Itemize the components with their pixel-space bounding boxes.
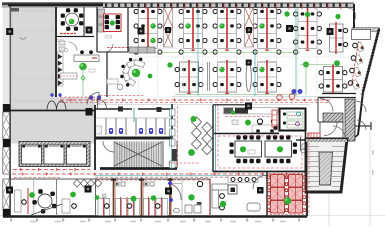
conference table 2 [265,141,292,157]
desk cluster A4 [258,7,277,49]
cell2 gray box [103,194,107,198]
column G6 [85,186,92,193]
training outline [269,174,306,215]
conf red dash box [218,136,302,168]
corridor bounds [172,96,330,98]
mid plant [220,201,226,207]
mid side table [247,203,260,211]
red dashed elevators [13,169,90,171]
cell3 door arc [170,184,181,201]
partition x113.5 [113,178,115,216]
green service line [82,66,84,96]
coffee table [117,84,123,90]
plant round table [69,19,75,25]
cafe desk2 [60,73,77,79]
red rings [277,95,283,101]
office cell 2 desks [144,199,149,216]
cafe bench row [58,52,64,86]
left facade frames [3,104,10,112]
plant red table [110,20,115,25]
plant corridor top [191,116,197,122]
bottom band top wall [8,178,210,180]
wall terrace right [55,7,57,97]
plant top right [335,14,340,19]
ramp diagonal [31,204,62,215]
bottom round table chairs [52,204,56,208]
toilet left items [96,126,102,134]
L wall right [355,125,371,127]
rowC desk band [252,125,278,133]
column G8 [286,25,293,32]
red dashed v corridor [177,106,179,168]
terrace inner outline [12,11,52,101]
plant corridor bottom [188,149,195,156]
terrace lines [9,30,56,32]
lobby blue dots [50,93,53,96]
meeting room red table [104,14,122,32]
bottom desk 1 [15,190,22,212]
teal v corridor [170,104,172,170]
wall y52 reception [97,51,128,53]
room above stair door arc [333,126,345,138]
teal line conference [215,105,217,171]
wall round room bottom [56,36,94,38]
cafe label [89,69,95,72]
cell4 tables [185,205,192,213]
teal toilet line [133,108,135,122]
hatch band right [345,99,355,141]
stair walls [95,137,172,140]
teal line v1 [197,7,199,96]
elevator cars [22,145,42,164]
pantry chairs [297,112,301,116]
toilet WC fixtures [109,128,113,134]
stair2 core [319,152,333,185]
corner angled desks [352,30,371,40]
blue dots reception [89,95,93,99]
pantry walls [280,109,306,131]
plant reception [132,69,140,77]
survey ticks [10,219,12,222]
diamond row bottom [73,180,80,188]
toilet stall partitions [105,118,107,135]
desk cluster B4 [324,67,343,93]
rowC chairs [257,119,262,124]
hatch block horizontal [323,113,343,122]
partition x170 [169,178,171,216]
red cluster ticks [146,50,150,52]
column G9 [138,28,145,35]
plant bl1 [29,192,35,198]
wall x210 bottom [210,179,212,216]
reception sofas [129,47,155,53]
wall rowC top [213,104,250,106]
outer wall bottom [3,215,307,218]
teal line corridor [95,175,310,177]
plant aisle A4-A5 [284,11,289,16]
small room right walls [296,139,343,141]
outer wall right step [353,4,355,29]
wall x33 bottom [33,179,35,216]
column G7 [165,188,172,195]
stair2 wall hatch top [306,139,347,142]
blue dots [292,89,297,94]
corridor cabinet boxes [170,109,176,116]
red dash rowC [225,116,277,118]
stair diagonal [114,142,162,166]
mid square table [228,185,237,194]
right rooms walls [318,97,356,99]
terrace gray zone [11,8,56,111]
stair door arc [103,141,114,152]
wc small rooms [302,144,306,148]
teal line v2 [295,7,297,96]
conference walls [214,133,279,135]
bottom desk 2 [62,199,70,213]
conf label [248,150,255,154]
desk cluster B3 [258,62,277,92]
green line h1 [130,52,300,54]
wall y93 right [322,93,356,95]
wall x56 bottom [56,179,58,216]
X-braced column T1 [164,7,173,47]
green line b4 [300,64,334,66]
desk cluster A6 half [330,24,344,52]
elevator lobby gray [11,112,95,144]
cell3 blues [168,181,173,187]
cafe door arc [87,93,99,105]
plant aisle mid [167,62,172,67]
toilet mid line [95,117,172,119]
partition x141.5 [141,178,143,216]
shelf red white 2 [308,133,320,138]
wall y110 lobby [10,110,95,112]
outer wall top left [8,4,103,6]
elevator block [19,142,90,167]
plant on A5 line [305,12,310,17]
grid line x329 [328,192,330,226]
top wall red ticks [145,3,147,10]
red dashed corridor upper 2 [60,102,330,104]
cell top boxes [115,182,119,186]
training plant [284,197,291,204]
corner desk red line [352,41,359,86]
red dashes under reception [100,95,145,97]
door arc meeting room [105,44,113,52]
stair2 outline [306,139,347,192]
mid column [257,187,264,194]
wall x182 bottom [181,179,183,216]
diamond panels [192,117,202,127]
red dashed seg3 [14,177,62,179]
bottom round table [38,194,52,208]
dim text right [372,150,373,155]
locker shelves [98,9,105,16]
wall x95 bottom [95,179,97,216]
wall x128 meeting [127,7,129,52]
desk cluster A3 [218,7,237,49]
lobby double door [47,101,57,110]
plant bl2 [70,192,76,198]
pantry tables [287,112,303,119]
outer wall left bottom [9,105,11,217]
mid room L desk [212,184,228,190]
plant credenza [231,110,235,114]
panel lines [207,62,209,91]
label 600 b [105,36,112,39]
core left wall [94,105,96,170]
red dashed lower 2 [95,176,300,178]
reception red marks [107,47,128,49]
round table chairs [79,21,83,25]
desk cluster A1 [139,7,158,49]
lobby door column [86,108,93,116]
column G2 [86,27,93,34]
grid line x370 [369,130,371,226]
conference table 1 [235,141,262,157]
corner wall hatch [352,28,379,31]
cafe red dashes [60,96,95,98]
label 600 a [57,39,64,42]
side desk [107,79,118,84]
stair treads [114,142,116,168]
red dashed v x218 [217,104,219,133]
training room red desks [271,175,285,188]
desk cluster A2 [184,7,203,49]
column G3 [327,28,334,35]
panel lens [246,62,251,91]
stair hatch area [113,142,163,168]
mid top tables [228,176,258,183]
office cell 1 desks [116,199,121,216]
wall rooms right x97 [96,7,98,52]
plant c4 [188,194,194,200]
desk cluster A5 [298,7,317,49]
reception left wall [106,52,108,97]
green line h2 [175,94,300,96]
shaft B [172,149,177,161]
top facade band [2,2,103,5]
stair2 treads [308,141,320,143]
wall x84 closet [83,7,85,36]
cafe counter [74,55,99,62]
plant c0 [95,195,100,200]
red dashed cells [96,179,210,181]
rowC small items [232,120,238,125]
column G4 [245,103,252,110]
office cell 0 desks [98,199,103,216]
red dashed corridor lower [12,173,300,175]
gray walk strip [56,97,95,111]
red dash y163 [168,162,200,164]
plant b4b [334,60,340,66]
diagonal wall hatch [378,27,381,30]
terrace dark mark [11,8,19,12]
meeting room round table [66,13,79,26]
mid room chairs [220,194,225,199]
plant below reception [148,74,153,79]
cell4 ring chair [197,181,202,186]
plant c2 [151,195,157,201]
credenza band [224,108,279,115]
column G5 [6,187,13,194]
right room door arcs [320,99,333,112]
mid room door arc [253,175,267,189]
lounge furniture [59,41,65,45]
top mullion band [103,3,354,8]
column G1 [6,28,13,35]
outer wall left top [9,5,11,105]
reception curved desk [125,76,136,86]
desk cluster B1 [180,62,199,92]
sidewalk strip [3,8,11,105]
wall x177 [176,141,178,168]
red table chairs [105,15,109,19]
toilet wall blocks [118,107,123,112]
plant b4a [303,62,309,68]
terrace U glyph [20,37,26,39]
outer wall right diagonal [363,29,379,92]
desk cluster B2 [218,62,237,92]
toilet block walls [95,108,132,110]
plant c1 [131,196,137,202]
dark blob shelf [273,126,277,130]
shelf red white [272,110,277,127]
mid room right wall [266,172,268,216]
core entry door arc [97,99,106,108]
red dash v training [308,133,310,215]
plant rowC [245,120,251,126]
red dashed corridor upper [60,99,330,101]
outer wall bottom right step [306,193,308,217]
cell3 oval [174,208,180,213]
gray dotted corridor [12,170,300,172]
teal line v3 [254,50,256,96]
office hairlines [138,7,140,95]
red label text [60,33,76,35]
cafe big plant [79,63,87,71]
X-braced column T2 [245,7,254,47]
grid line y215 [0,215,385,217]
